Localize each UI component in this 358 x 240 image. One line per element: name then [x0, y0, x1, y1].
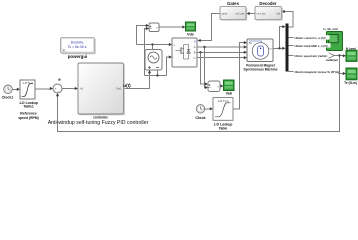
svg-text:Table1: Table1 [23, 105, 34, 109]
svg-text:m: m [270, 48, 272, 51]
svg-text:Tm: Tm [249, 42, 252, 45]
svg-text:B: B [194, 51, 196, 55]
svg-text:<Electromagnetic torque Te (N*: <Electromagnetic torque Te (N*m)> [294, 70, 340, 74]
svg-text:<Stator back EMF e_a (V)>: <Stator back EMF e_a (V)> [294, 44, 329, 48]
svg-text:speed (RPM): speed (RPM) [18, 116, 39, 120]
svg-text:Anti-windup self-tuning Fuzzy: Anti-windup self-tuning Fuzzy PID contro… [48, 120, 149, 126]
svg-text:rad2rpm: rad2rpm [326, 58, 339, 62]
svg-text:Synchronous Machine: Synchronous Machine [243, 67, 277, 71]
svg-text:hall: hall [276, 13, 280, 16]
svg-text:1-D T(u): 1-D T(u) [22, 81, 32, 85]
svg-text:emf_abc: emf_abc [257, 13, 267, 16]
svg-text:<Rotor speed wm (rad/s)>: <Rotor speed wm (rad/s)> [294, 54, 328, 58]
svg-text:Clock1: Clock1 [2, 96, 14, 100]
svg-text:In1: In1 [80, 87, 84, 91]
svg-text:Gates: Gates [227, 1, 240, 6]
svg-text:Clock: Clock [195, 116, 206, 120]
svg-text:Vdc: Vdc [187, 31, 195, 36]
svg-text:Te (N-m): Te (N-m) [344, 81, 357, 85]
svg-text:emf_abc: emf_abc [235, 13, 245, 16]
svg-text:Ts = 5e-06 s.: Ts = 5e-06 s. [68, 45, 88, 49]
svg-text:powergui: powergui [68, 54, 88, 59]
svg-text:-: - [174, 56, 175, 60]
svg-text:Vab: Vab [226, 91, 233, 95]
svg-text:Decoder: Decoder [259, 1, 277, 6]
svg-text:Table: Table [219, 127, 228, 131]
svg-text:−: − [57, 89, 59, 93]
svg-text:Out1: Out1 [116, 87, 122, 91]
svg-text:A: A [194, 45, 196, 49]
svg-text:C: C [194, 56, 196, 60]
svg-text:u(t): u(t) [123, 83, 131, 88]
svg-text:is_bk_emf: is_bk_emf [323, 27, 337, 31]
svg-text:<Stator current is_a (A)>: <Stator current is_a (A)> [294, 36, 326, 40]
svg-text:gates: gates [222, 13, 229, 16]
